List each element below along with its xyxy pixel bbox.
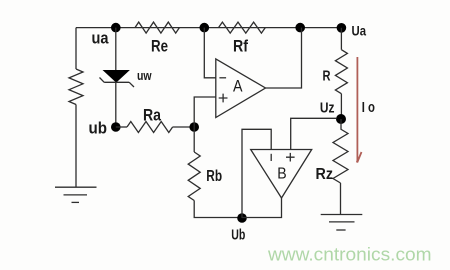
op-amp U-B — [251, 150, 312, 199]
U-B plus pin mark — [286, 153, 295, 162]
wire node to A plus input — [194, 97, 216, 127]
node ub (junction dot) — [111, 122, 121, 132]
node Ub (junction dot) — [237, 213, 247, 223]
svg-text:www.cntronics.com: www.cntronics.com — [267, 244, 432, 264]
node Ra/Rb/A+ (junction dot) — [189, 122, 199, 132]
wire left branch vertical — [75, 28, 77, 69]
svg-text:A: A — [233, 76, 243, 95]
resistor Ra — [127, 122, 173, 133]
wire top bus — [76, 27, 341, 29]
wire A minus input feedback — [204, 28, 216, 78]
svg-text:Re: Re — [151, 36, 168, 55]
node A-output top (junction dot) — [295, 23, 305, 33]
svg-text:Uz: Uz — [320, 100, 335, 117]
wire zener bottom — [115, 82, 117, 127]
wire Rb vertical top — [193, 127, 195, 152]
U-A minus pin mark — [219, 77, 226, 79]
resistor Rf — [219, 22, 266, 33]
ground (right) — [321, 215, 363, 231]
svg-text:ub: ub — [89, 118, 108, 137]
wire zener top — [115, 28, 117, 71]
node Ua (junction dot) — [337, 23, 347, 33]
resistor R — [335, 50, 347, 94]
resistor Rb — [188, 152, 200, 201]
ground (left) — [55, 187, 97, 202]
svg-text:Rf: Rf — [233, 36, 248, 55]
wire R to Uz — [340, 94, 342, 119]
resistor R-left (unlabeled) — [69, 69, 83, 105]
wire Rb bottom to Ub — [194, 201, 242, 218]
svg-text:Ua: Ua — [352, 24, 367, 39]
current arrow Io — [357, 57, 362, 163]
wire B feedback loop — [242, 129, 271, 218]
svg-text:B: B — [277, 165, 286, 182]
svg-text:R: R — [323, 67, 331, 84]
wire A output — [266, 28, 302, 88]
op-amp U-A — [216, 59, 266, 118]
svg-text:I o: I o — [362, 99, 375, 116]
wire ub to Ra — [116, 126, 127, 128]
zener diode uw — [100, 71, 135, 88]
wire Ra to node — [173, 126, 195, 128]
wire B output to Ub — [242, 198, 282, 218]
wire Ua to R — [340, 28, 342, 50]
wire B plus input from Uz — [291, 118, 336, 149]
resistor Rz — [333, 129, 348, 183]
svg-text:Ra: Ra — [143, 106, 161, 125]
node ua (junction dot) — [111, 23, 121, 33]
U-A plus pin mark — [219, 94, 228, 103]
node A-inverting (junction dot) — [200, 23, 210, 33]
svg-text:Rb: Rb — [206, 168, 222, 185]
node Uz (junction dot) — [336, 114, 346, 124]
svg-text:uw: uw — [137, 68, 152, 83]
wire Uz to Rz — [340, 119, 342, 129]
svg-text:Rz: Rz — [316, 166, 334, 183]
wire Rz to ground — [340, 183, 342, 215]
resistor Re — [135, 22, 179, 33]
U-B minus pin mark — [270, 154, 272, 161]
svg-text:ua: ua — [92, 29, 109, 48]
svg-text:Ub: Ub — [231, 226, 245, 243]
wire left branch to ground — [75, 105, 77, 188]
